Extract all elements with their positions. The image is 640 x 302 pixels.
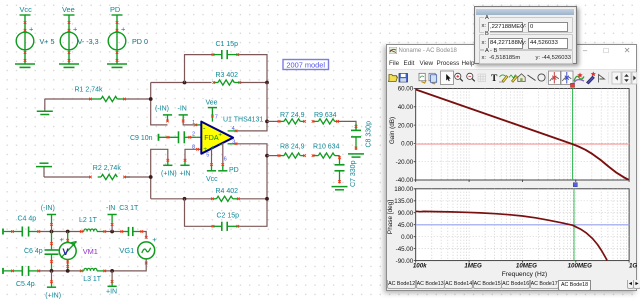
capacitor C6 xyxy=(24,232,59,271)
voltmeter VM1 xyxy=(59,232,98,271)
wire R3 right to node A xyxy=(241,82,268,84)
input terminal (top-left) xyxy=(2,229,4,235)
svg-text:V+ 5: V+ 5 xyxy=(40,37,55,46)
wire node B to R8 xyxy=(267,155,278,157)
+IN input jumper xyxy=(106,271,117,296)
resistor R10 xyxy=(312,144,340,159)
ground (PD) xyxy=(107,64,127,67)
svg-text:C3 1T: C3 1T xyxy=(119,205,139,212)
resistor R8 xyxy=(278,144,306,159)
wire R1 left xyxy=(45,98,90,100)
node B (bottom feedback) xyxy=(265,154,269,158)
wire R2 left xyxy=(44,176,90,178)
(+IN) jumper xyxy=(161,159,177,178)
icon: cursor a (pressed) xyxy=(548,71,560,85)
separator xyxy=(607,72,609,84)
svg-text:6: 6 xyxy=(224,157,227,163)
svg-text:R8 24,9: R8 24,9 xyxy=(280,144,305,151)
svg-text:FDA: FDA xyxy=(204,133,219,142)
cursor group A xyxy=(479,17,573,33)
svg-text:R2 2,74k: R2 2,74k xyxy=(93,165,122,172)
svg-text:Vee: Vee xyxy=(62,5,75,14)
svg-text:C9 10n: C9 10n xyxy=(130,135,153,142)
window title bar xyxy=(387,45,637,58)
PD jumper xyxy=(218,163,239,174)
svg-text:-45.00: -45.00 xyxy=(395,245,413,252)
svg-text:45.00: 45.00 xyxy=(397,221,413,228)
svg-text:Vee: Vee xyxy=(206,100,218,107)
node A (top feedback) xyxy=(265,81,269,85)
-IN input jumper xyxy=(106,205,117,232)
icon: set axis 2 xyxy=(509,74,518,82)
wire +IN jumper to pin 8 xyxy=(185,149,196,159)
svg-text:+IN: +IN xyxy=(180,171,191,178)
svg-text:1G: 1G xyxy=(628,262,636,269)
log grid lines (both plots) xyxy=(415,88,628,260)
svg-text:R4 402: R4 402 xyxy=(216,188,239,195)
ground (C8) xyxy=(348,154,364,157)
icon: house xyxy=(517,73,524,81)
svg-text:(-IN): (-IN) xyxy=(155,106,169,113)
cursor b vertical line (phase) xyxy=(573,188,575,260)
analysis tabs xyxy=(387,280,637,290)
toolbar xyxy=(387,69,637,86)
node R4/C2 left junction xyxy=(183,197,187,201)
plot area xyxy=(387,81,637,279)
svg-text:V: V xyxy=(62,246,69,257)
svg-text:C4 4p: C4 4p xyxy=(18,216,37,223)
gain curve xyxy=(415,89,628,179)
svg-text:R10 634: R10 634 xyxy=(313,144,340,151)
separator xyxy=(545,72,547,84)
svg-text:Vcc: Vcc xyxy=(206,176,218,183)
node C1/R3 left junction xyxy=(183,81,187,85)
-IN jumper xyxy=(178,106,188,123)
wire R4 row left xyxy=(151,198,212,200)
svg-text:VG1: VG1 xyxy=(119,246,134,255)
svg-text:90.00: 90.00 xyxy=(397,209,413,216)
capacitor C9 xyxy=(130,131,197,143)
wire top row C4 to L2 xyxy=(40,231,80,233)
icon: cursor b (pressed) xyxy=(561,71,573,85)
svg-text:+: + xyxy=(29,25,34,34)
capacitor C7 xyxy=(335,156,358,187)
svg-text:-40.00: -40.00 xyxy=(395,177,413,184)
svg-text:C6 4p: C6 4p xyxy=(24,248,43,255)
icon: copy plot 1 xyxy=(419,73,426,83)
svg-text:C2 15p: C2 15p xyxy=(217,213,240,220)
svg-text:C1 15p: C1 15p xyxy=(216,41,239,48)
node +IN junction xyxy=(149,175,153,179)
wire R1 to -IN node xyxy=(125,98,151,100)
input terminal (bottom-left) xyxy=(2,268,4,274)
0 dB reference line (red) xyxy=(415,143,628,145)
(+IN) input jumper xyxy=(45,271,61,300)
svg-text:R3 402: R3 402 xyxy=(216,72,239,79)
icon: pen star xyxy=(586,71,595,84)
ground (Vcc) xyxy=(15,64,35,67)
svg-text:(-IN): (-IN) xyxy=(41,205,55,212)
ground (C7) xyxy=(332,187,348,190)
cursor group A-B xyxy=(479,50,573,64)
svg-text:1MEG: 1MEG xyxy=(464,262,482,269)
op-amp U1 THS4131 (FDA) xyxy=(192,115,237,163)
icon: line xyxy=(527,75,535,81)
svg-text:100MEG: 100MEG xyxy=(567,262,592,269)
capacitor C3 xyxy=(119,205,143,236)
note box 2007 model xyxy=(283,60,329,70)
cursor a handle xyxy=(570,83,574,87)
svg-text:Phase [deg]: Phase [deg] xyxy=(387,199,394,233)
svg-text:-90.00: -90.00 xyxy=(395,257,413,264)
svg-text:135.00: 135.00 xyxy=(394,198,413,205)
wire -IN jumper to pin 1 xyxy=(183,122,195,125)
svg-text:8: 8 xyxy=(192,144,195,150)
voltage source PD xyxy=(108,15,126,64)
wire R2 to +IN node xyxy=(125,176,151,178)
icon: copy plot 2 xyxy=(429,73,437,84)
wire -IN node vertical xyxy=(151,83,168,125)
inductor L3 xyxy=(80,268,106,283)
capacitor C1 xyxy=(212,41,240,59)
resistor R1 xyxy=(75,87,126,102)
resistor R2 xyxy=(89,165,130,180)
wire node A vertical to output+ xyxy=(237,83,267,131)
svg-text:-IN: -IN xyxy=(178,106,187,113)
wire VG1 bottom xyxy=(106,259,146,271)
wire node A to R7 xyxy=(267,120,278,122)
icon: flag xyxy=(598,74,604,82)
icon: arrow right xyxy=(632,72,637,84)
svg-text:100k: 100k xyxy=(412,262,426,269)
ground (R2 input) xyxy=(43,167,45,177)
svg-text:+: + xyxy=(73,25,78,34)
menu bar xyxy=(387,57,637,69)
svg-text:(+IN): (+IN) xyxy=(161,171,177,178)
icon: grid (disabled) xyxy=(478,74,486,82)
Vcc jumper (op-amp bottom) xyxy=(206,163,218,183)
wire top row L2 to C3 xyxy=(106,231,120,233)
svg-text:V- -3,3: V- -3,3 xyxy=(78,37,99,46)
icon: circle xyxy=(537,73,544,80)
wire +IN node vertical xyxy=(151,149,168,199)
ground (R1 input) xyxy=(44,99,46,111)
resistor R4 xyxy=(211,188,240,201)
wire bottom row C5 to L3 xyxy=(40,270,80,272)
svg-text:+: + xyxy=(152,235,157,244)
svg-text:Frequency (Hz): Frequency (Hz) xyxy=(501,270,546,277)
svg-text:40.00: 40.00 xyxy=(397,104,413,111)
resistor R7 xyxy=(278,112,306,124)
cursor a vertical line (gain) xyxy=(571,88,573,180)
svg-text:PD 0: PD 0 xyxy=(132,37,148,46)
(-IN) input jumper xyxy=(41,205,56,232)
svg-text:2: 2 xyxy=(192,132,195,138)
svg-text:Vcc: Vcc xyxy=(20,5,33,14)
wire Vcc pin xyxy=(211,149,213,164)
phase curve xyxy=(415,211,606,260)
wire bottom row L3 to VG1 xyxy=(110,269,114,273)
generator VG1 xyxy=(119,235,157,264)
svg-text:+: + xyxy=(60,235,65,244)
svg-text:R9 634: R9 634 xyxy=(314,112,337,119)
wire R4 right xyxy=(239,198,267,200)
svg-text:R7 24,9: R7 24,9 xyxy=(280,112,305,119)
svg-text:L2 1T: L2 1T xyxy=(79,217,98,224)
voltage source Vee xyxy=(60,15,78,64)
svg-text:0.00: 0.00 xyxy=(401,233,414,240)
wire C1 left riser xyxy=(185,55,212,83)
gain plot box xyxy=(415,88,628,180)
cursor values window title bar xyxy=(476,9,574,16)
inductor L2 xyxy=(79,217,106,233)
svg-text:60.00: 60.00 xyxy=(397,85,413,92)
svg-text:1: 1 xyxy=(192,120,195,126)
svg-text:3: 3 xyxy=(232,139,235,145)
wire R9 to C8 xyxy=(338,121,356,129)
svg-text:2007 model: 2007 model xyxy=(286,60,325,69)
capacitor C5 xyxy=(4,266,40,288)
icon: spinner up/down xyxy=(622,72,631,84)
wire C3 to VG1 xyxy=(143,232,146,239)
svg-text:180.00: 180.00 xyxy=(394,186,413,193)
svg-text:C8 330p: C8 330p xyxy=(366,121,373,148)
resistor R9 xyxy=(312,112,339,124)
icon: open file xyxy=(388,74,397,81)
icon: zoom in xyxy=(454,73,462,81)
svg-text:PD: PD xyxy=(110,5,120,14)
svg-text:20.00: 20.00 xyxy=(397,122,413,129)
svg-text:0.00: 0.00 xyxy=(401,140,414,147)
45 deg reference line (blue) xyxy=(415,223,628,225)
icon: curves xyxy=(574,72,584,82)
(-IN) jumper xyxy=(155,106,172,123)
cursor group B xyxy=(479,34,573,50)
svg-text:-IN: -IN xyxy=(106,205,115,212)
wire C1 right xyxy=(239,55,267,83)
svg-text:C7 330p: C7 330p xyxy=(350,160,357,187)
svg-text:+: + xyxy=(121,25,126,34)
voltage source Vcc xyxy=(16,15,34,64)
svg-text:U1 THS4131: U1 THS4131 xyxy=(223,117,263,124)
svg-text:-20.00: -20.00 xyxy=(395,158,413,165)
Vee jumper (op-amp top) xyxy=(206,100,218,122)
icon: arrow left xyxy=(612,72,621,84)
node -IN junction xyxy=(149,97,153,101)
svg-text:L3 1T: L3 1T xyxy=(83,276,102,283)
+IN jumper xyxy=(180,159,191,178)
icon: zoom out xyxy=(466,73,474,81)
icon: save xyxy=(399,73,408,82)
capacitor C2 xyxy=(212,213,240,231)
svg-text:VM1: VM1 xyxy=(83,247,98,256)
wire R3 row left xyxy=(151,82,212,84)
wire C2 left riser xyxy=(185,199,212,227)
svg-text:7: 7 xyxy=(215,115,218,121)
wire C2 right / node B vertical xyxy=(237,144,267,227)
svg-text:R1 2,74k: R1 2,74k xyxy=(75,87,104,94)
icon: set axis 1 xyxy=(499,74,508,81)
svg-text:+IN: +IN xyxy=(106,289,117,296)
ground (Vee) xyxy=(59,64,79,67)
cursor b handle xyxy=(573,182,577,186)
AC analysis window (Noname - AC Bode18) xyxy=(386,44,638,291)
svg-text:10MEG: 10MEG xyxy=(515,262,536,269)
icon: select arrow (pressed) xyxy=(440,71,453,85)
svg-text:5: 5 xyxy=(206,153,209,159)
capacitor C8 xyxy=(351,121,373,150)
capacitor C4 xyxy=(4,216,40,237)
svg-text:4: 4 xyxy=(232,126,235,132)
svg-text:C5 4p: C5 4p xyxy=(16,281,35,288)
wire PD pin xyxy=(222,143,224,164)
resistor R3 xyxy=(213,72,242,85)
svg-text:(+IN): (+IN) xyxy=(45,293,61,300)
svg-text:PD: PD xyxy=(229,167,239,174)
phase plot box xyxy=(415,188,628,260)
svg-text:Gain (dB): Gain (dB) xyxy=(389,116,396,143)
